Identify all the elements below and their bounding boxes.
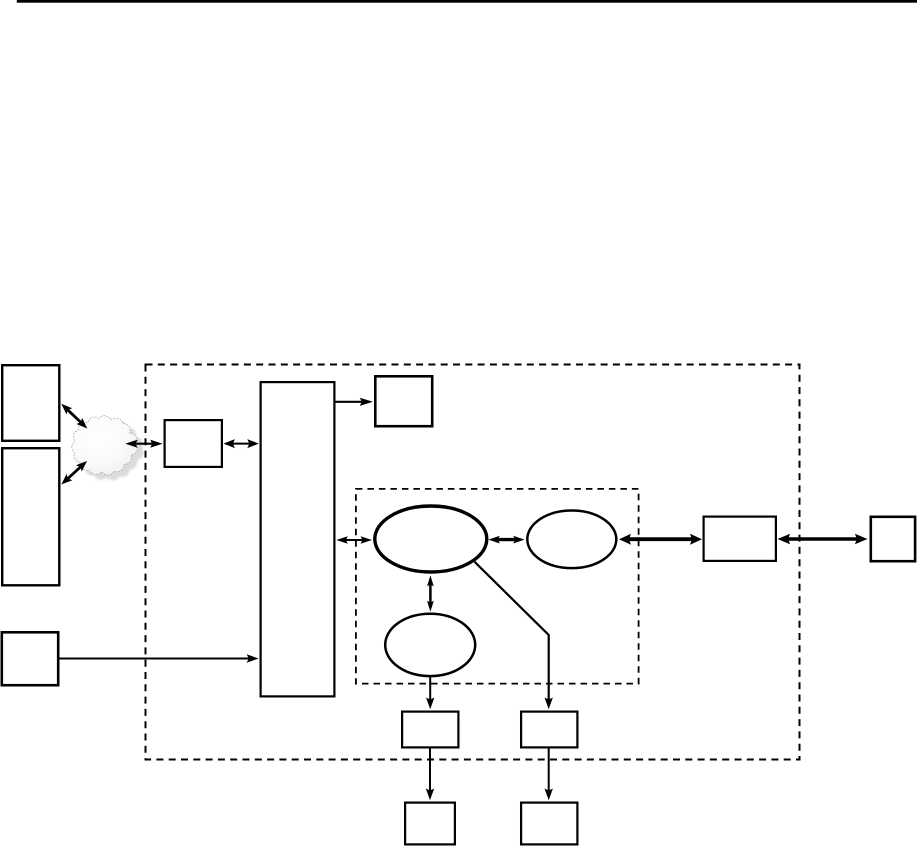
wire: block D to tall block E (bidirectional) (223, 439, 258, 448)
block M (output stage 2) (521, 712, 577, 748)
wire: lower-left block C to tall block E (59, 654, 259, 662)
wire: block B to cloud (bidirectional) (61, 461, 87, 485)
block A (top-left external device) (2, 365, 59, 441)
block O (bottom output 2) (521, 803, 577, 845)
block N (bottom output 1) (405, 803, 455, 845)
wire: ellipse G to ellipse H (bidirectional) (489, 536, 525, 544)
tall block E (bus/controller) (261, 382, 335, 696)
inner dashed subsystem boundary (356, 489, 639, 684)
block F (top-right unit) (375, 376, 432, 426)
block K (far-right unit) (871, 517, 915, 561)
block C (lower-left input device) (2, 632, 58, 685)
wire: block A to cloud (bidirectional) (61, 404, 87, 429)
cloud (network) (72, 416, 143, 480)
block D (interface/modem) (165, 420, 222, 467)
wire: block M down to bottom block O (545, 748, 553, 800)
wire: diagonal from large ellipse G down to block M (475, 562, 553, 710)
wire: bottom ellipse I down to block L (426, 675, 434, 709)
large ellipse G (main process) (375, 506, 487, 572)
block B (left external device) (2, 448, 59, 585)
wire: ellipse G to ellipse I (bidirectional) (427, 575, 434, 611)
wire: cloud to block D (bidirectional) (125, 440, 162, 448)
wire: block L down to bottom block N (426, 748, 434, 800)
outer dashed system boundary (146, 365, 800, 760)
wire: tall block E to top-right block F (335, 398, 373, 406)
top rule (17, 0, 917, 3)
wire: tall block E to large ellipse G (bidirectional) (336, 536, 372, 544)
wire: ellipse H to block J (bidirectional, thick) (619, 534, 702, 545)
block L (output stage 1) (402, 712, 458, 748)
block J (mid-right unit) (704, 517, 776, 561)
ellipse I (bottom process) (385, 614, 475, 676)
wire: block J to block K (bidirectional, thick) (778, 534, 868, 544)
ellipse H (right process) (527, 511, 616, 569)
